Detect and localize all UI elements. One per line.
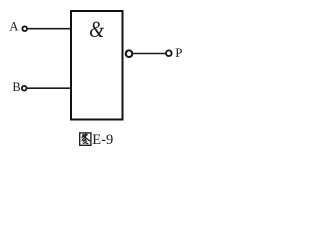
input terminal A (22, 26, 27, 31)
NAND gate U1 body (71, 11, 123, 120)
wire (133, 53, 166, 55)
wire (27, 87, 71, 89)
wire (28, 28, 72, 30)
svg-text:E-9: E-9 (92, 132, 113, 148)
input terminal B (22, 86, 27, 91)
svg-text:B: B (12, 80, 20, 94)
svg-text:P: P (175, 45, 182, 60)
NAND gate U1 inversion bubble (126, 50, 133, 57)
svg-text:A: A (9, 20, 18, 34)
caption character 图 (80, 133, 91, 145)
svg-text:&: & (89, 16, 104, 42)
NAND gate U1 label & (89, 16, 104, 42)
output terminal P (166, 50, 172, 56)
